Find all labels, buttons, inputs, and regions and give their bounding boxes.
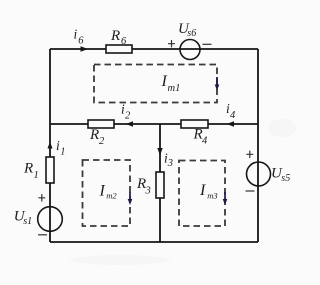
svg-text:6: 6 — [78, 36, 84, 47]
svg-text:m1: m1 — [168, 83, 181, 94]
svg-text:R: R — [110, 28, 120, 44]
svg-text:2: 2 — [125, 110, 131, 121]
svg-text:6: 6 — [121, 36, 127, 47]
svg-text:1: 1 — [34, 170, 39, 181]
svg-text:I: I — [161, 73, 168, 90]
svg-text:R: R — [89, 127, 99, 143]
svg-text:m2: m2 — [106, 190, 117, 200]
svg-text:4: 4 — [202, 136, 208, 147]
svg-text:m3: m3 — [207, 190, 217, 200]
svg-text:R: R — [23, 161, 33, 177]
svg-text:s5: s5 — [281, 173, 290, 184]
svg-text:s1: s1 — [23, 216, 32, 227]
svg-text:i: i — [74, 27, 78, 42]
svg-text:1: 1 — [60, 146, 65, 157]
svg-text:4: 4 — [230, 110, 236, 121]
svg-text:2: 2 — [99, 136, 105, 147]
svg-text:s6: s6 — [187, 28, 196, 39]
svg-text:I: I — [199, 182, 206, 199]
svg-text:I: I — [99, 183, 106, 200]
svg-text:3: 3 — [145, 186, 151, 197]
svg-text:3: 3 — [167, 158, 173, 169]
